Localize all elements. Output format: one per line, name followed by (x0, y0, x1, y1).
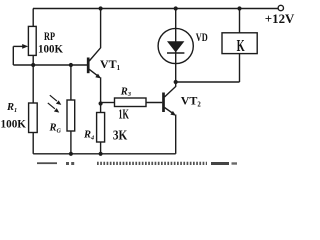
diode VD cathode bar (167, 52, 184, 54)
svg-text:100K: 100K (38, 41, 64, 55)
wire photoresistor top lead (70, 65, 72, 100)
transistor VT1 collector (89, 9, 100, 62)
wire wiper return (left vertical) (12, 46, 14, 65)
node R4 bottom junction (99, 152, 103, 156)
transistor VT2 collector (165, 82, 176, 97)
node VT1 collector junction (99, 6, 103, 10)
node VT1 emitter junction (99, 101, 103, 105)
relay K box (222, 33, 257, 54)
wire bottom rail (33, 153, 176, 155)
wire relay bottom lead (239, 54, 241, 82)
wire collector rail to relay (176, 81, 240, 83)
svg-text:VT1: VT1 (100, 57, 121, 72)
caption fragment tick row (97, 162, 207, 165)
resistor R4 body (97, 113, 105, 143)
caption fragment right bar (211, 162, 237, 165)
wire RP top lead (32, 9, 34, 27)
caption fragment left dash (37, 162, 57, 164)
svg-text:1K: 1K (118, 108, 129, 123)
wire R4 bottom lead (100, 142, 102, 154)
transistor VT1 base bar (87, 58, 90, 74)
RP wiper arrow (13, 44, 28, 49)
+12V supply terminal (278, 5, 283, 10)
transistor VT1 emitter with arrow (89, 69, 101, 103)
svg-text:VD: VD (196, 30, 208, 44)
node photoresistor bottom junction (69, 152, 73, 156)
diode VD circle (158, 28, 193, 63)
node RP bottom junction (31, 63, 35, 67)
node VD top junction (174, 6, 178, 10)
wire relay top lead (239, 9, 241, 33)
wire R4 top lead (100, 104, 102, 113)
wire RP bottom to R1 top (32, 55, 34, 103)
diode VD triangle (167, 41, 184, 52)
node relay top junction (237, 6, 241, 10)
svg-text:R4: R4 (83, 130, 94, 142)
resistor RP (potentiometer body) (28, 26, 36, 55)
svg-text:RG: RG (49, 123, 62, 135)
wire VD anode lead (175, 9, 177, 83)
svg-text:+12V: +12V (265, 11, 295, 26)
wire photoresistor bottom lead (70, 131, 72, 154)
node photoresistor top junction (69, 63, 73, 67)
svg-text:K: K (237, 36, 245, 55)
transistor VT2 emitter with arrow (165, 108, 176, 154)
node VT2 collector junction (174, 80, 178, 84)
wire emitter node to R3 (101, 102, 115, 104)
svg-text:3K: 3K (113, 129, 127, 144)
photoresistor RG body (67, 100, 75, 131)
photoresistor light arrow 1 (50, 95, 62, 105)
svg-text:VT2: VT2 (181, 94, 202, 109)
caption fragment small marks (66, 162, 74, 165)
wire R1 bottom lead (32, 133, 34, 154)
svg-text:R1: R1 (6, 102, 17, 114)
wire left node rail to VT1 base (13, 64, 87, 66)
photoresistor light arrow 2 (48, 103, 60, 113)
resistor R1 body (29, 103, 38, 133)
svg-text:R3: R3 (120, 86, 131, 98)
transistor VT2 base bar (162, 93, 165, 113)
svg-text:100K: 100K (1, 116, 27, 130)
wire R3 to VT2 base (146, 102, 162, 104)
wire top supply rail (33, 8, 278, 10)
resistor R3 body (115, 98, 147, 107)
